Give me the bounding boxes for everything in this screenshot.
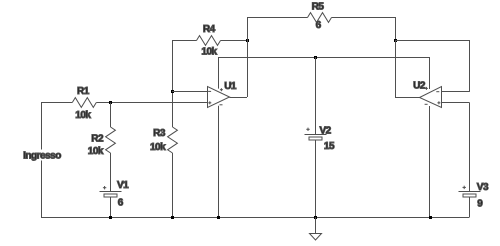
wire: input node to R1 left lead — [41, 102, 72, 104]
wire: R1 right lead to U1 non-inverting input — [96, 102, 207, 104]
svg-text:10k: 10k — [150, 142, 166, 153]
value label 10k (R2) — [88, 146, 104, 157]
U2 positive supply pin — [429, 57, 431, 89]
wire: node to U1 inverting input — [172, 91, 208, 93]
value label R1 — [77, 86, 90, 97]
op-amp U1 — [208, 87, 230, 108]
polarity + (V2) — [306, 128, 309, 131]
polarity + (V1) — [103, 186, 106, 189]
svg-text:10k: 10k — [75, 110, 91, 121]
label U1 — [224, 81, 237, 92]
wire: V2 to ground rail — [315, 141, 317, 218]
svg-text:6: 6 — [316, 20, 322, 31]
value label R4 — [203, 24, 216, 35]
value label V1 — [117, 180, 129, 191]
junction: V1 on ground rail — [109, 216, 112, 219]
svg-text:R1: R1 — [77, 86, 90, 97]
wire: feedback node right and down to U2 inverting input — [395, 40, 470, 92]
resistor R4 — [197, 36, 221, 46]
U2 inverting input marker - — [436, 91, 439, 93]
op-amp U2 (mirrored) — [420, 87, 442, 108]
value label 10k (R1) — [75, 110, 91, 121]
wire: supply rail down to V2 — [315, 57, 317, 135]
U1 negative supply pin to ground rail — [218, 106, 220, 217]
wire: R4 left lead — [172, 40, 197, 42]
resistor R2 — [106, 127, 116, 153]
wire: R4 right lead to U1 output column — [221, 40, 248, 42]
U1 inverting input marker - — [208, 90, 211, 92]
value label R5 — [312, 1, 325, 12]
junction: R1 / R2 node — [109, 101, 112, 104]
svg-text:10k: 10k — [201, 46, 217, 57]
junction: U1 inverting input node — [171, 90, 174, 93]
U1 supply + marker — [220, 88, 223, 91]
wire: R5 left lead — [247, 17, 308, 19]
value label V3 — [477, 182, 489, 193]
wire: V3 to ground rail — [469, 197, 471, 217]
value label 9 (V3) — [477, 199, 483, 210]
value label 10k (R3) — [150, 142, 166, 153]
supply rail: U1 V+ to V2+ to U2 V+ — [219, 57, 430, 59]
wire: U1 output — [230, 17, 248, 98]
U2 supply - marker — [425, 103, 428, 105]
value label 15 (V2) — [324, 141, 335, 152]
U1 positive supply pin — [218, 57, 220, 89]
value label 6 (V1) — [118, 198, 124, 209]
value label R3 — [153, 128, 166, 139]
battery V2 — [305, 135, 327, 141]
svg-text:R5: R5 — [312, 1, 325, 12]
value label 10k (R4) — [201, 46, 217, 57]
svg-text:U2: U2 — [413, 81, 426, 92]
svg-text:9: 9 — [477, 199, 483, 210]
junction: R4 / R5 / U1 output node — [246, 39, 249, 42]
node Ingresso (net label) — [23, 150, 62, 162]
svg-text:R2: R2 — [91, 133, 104, 144]
svg-text:6: 6 — [118, 198, 124, 209]
U2 negative supply pin to ground rail — [429, 106, 431, 217]
svg-text:10k: 10k — [88, 146, 104, 157]
wire: V1 to ground rail — [110, 198, 112, 218]
svg-text:U1: U1 — [224, 81, 237, 92]
junction: R3 on ground rail — [171, 216, 174, 219]
svg-text:R3: R3 — [153, 128, 166, 139]
U2 supply + marker — [425, 87, 428, 90]
svg-text:15: 15 — [324, 141, 335, 152]
resistor R5 — [308, 13, 332, 23]
value label V2 — [320, 125, 332, 136]
wire: U2 non-inverting input to V3 — [442, 103, 470, 192]
wire: R4 left lead column down through R3 to ground rail — [172, 40, 174, 217]
U1 supply - marker — [220, 104, 223, 106]
U2 non-inverting input marker + — [437, 101, 440, 104]
svg-text:V1: V1 — [117, 180, 129, 191]
U1 non-inverting input marker + — [208, 101, 211, 104]
svg-text:V2: V2 — [320, 125, 332, 136]
junction: R5 / U2 output / feedback node — [394, 39, 397, 42]
junction: U2 V- on ground rail — [429, 216, 432, 219]
wire: R2 bottom to V1 — [110, 153, 112, 192]
wire: feedback node down to U2 output — [395, 40, 420, 98]
wire: R5 right lead down to feedback node — [332, 17, 396, 40]
resistor R1 — [72, 98, 96, 108]
svg-text:R4: R4 — [203, 24, 216, 35]
wire: Ingresso input column (left) — [41, 103, 43, 218]
value label R2 — [91, 133, 104, 144]
polarity + (V3) — [463, 186, 466, 189]
junction: V2/ground on ground rail — [314, 216, 317, 219]
value label 6 (R5) — [316, 20, 322, 31]
svg-text:Ingresso: Ingresso — [23, 151, 61, 162]
resistor R3 — [168, 127, 178, 153]
wire: node down to R2 — [110, 103, 112, 128]
battery V1 — [100, 192, 122, 198]
ground symbol — [310, 217, 322, 240]
ground rail (bottom) — [41, 217, 470, 219]
junction: U1 V- on ground rail — [217, 216, 220, 219]
label U2 — [413, 81, 426, 92]
junction: V2 positive node — [314, 56, 317, 59]
battery V3 — [459, 192, 481, 198]
svg-text:V3: V3 — [477, 182, 489, 193]
